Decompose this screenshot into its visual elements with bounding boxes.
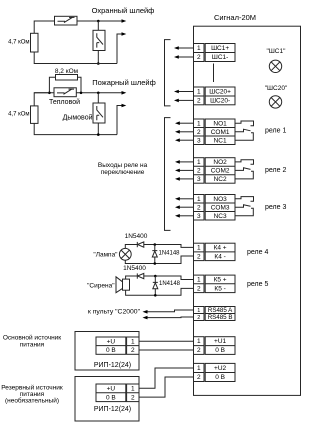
relay contact symbol реле 1 [235, 121, 254, 140]
svg-text:2: 2 [131, 394, 135, 401]
svg-text:RS485 B: RS485 B [208, 314, 233, 321]
svg-text:1: 1 [197, 338, 201, 345]
label: реле 5 [247, 281, 268, 288]
svg-text:реле 1: реле 1 [265, 127, 286, 134]
svg-text:2: 2 [131, 347, 135, 354]
svg-text:"Лампа": "Лампа" [93, 251, 118, 258]
wire РИП1 0В to 0В [139, 349, 194, 351]
arrow to ШС1- [122, 32, 127, 36]
wire+arrow к NO1 row2 [175, 130, 194, 134]
terminal block +U2 [194, 363, 236, 381]
label: Пожарный шлейф [92, 78, 156, 87]
node: junction охранный bottom [97, 62, 100, 65]
svg-text:1N5400: 1N5400 [125, 233, 148, 240]
svg-text:1N4148: 1N4148 [159, 251, 181, 257]
svg-text:Охранный шлейф: Охранный шлейф [92, 6, 155, 15]
label: реле 2 [265, 167, 286, 174]
РИП2 terminal block [96, 384, 139, 402]
svg-text:3: 3 [197, 137, 201, 144]
detector box Дымовой [93, 103, 105, 123]
label: Охранный шлейф [92, 6, 155, 15]
svg-text:NO2: NO2 [213, 159, 227, 166]
svg-text:ШС20-: ШС20- [210, 98, 230, 105]
wire: охранный return hook [117, 34, 122, 64]
diode 1N5400 (сирена) [137, 273, 144, 278]
node: lamp top junction [154, 243, 157, 246]
node: junction right (branch) [80, 92, 83, 95]
svg-text:NO3: NO3 [213, 196, 227, 203]
node: siren top junction [154, 275, 157, 278]
node: siren bottom junction [154, 294, 157, 297]
svg-text:COM3: COM3 [211, 204, 230, 211]
svg-text:2: 2 [197, 315, 200, 321]
label: РИП-12(24) #2 [94, 406, 131, 413]
wire: лампа top to К4+ [125, 245, 193, 249]
svg-text:2: 2 [197, 168, 201, 175]
terminal block +U1 [194, 337, 236, 355]
wire+arrow к ШС20+ [174, 90, 194, 94]
svg-text:к пульту "С2000": к пульту "С2000" [88, 309, 141, 316]
svg-text:2: 2 [197, 204, 201, 211]
svg-text:3: 3 [197, 176, 201, 183]
bracket ШС group [165, 40, 171, 106]
svg-text:4,7 кОм: 4,7 кОм [8, 40, 29, 46]
svg-text:К4 +: К4 + [214, 245, 227, 252]
svg-text:1: 1 [197, 159, 201, 166]
wire+arrow к ШС1+ [174, 46, 194, 50]
svg-text:"ШС20": "ШС20" [265, 85, 288, 92]
wire+arrow к ШС20- [174, 99, 194, 103]
wire: охранный шлейф bottom + left riser [34, 52, 117, 64]
node: junction left (branch) [48, 92, 51, 95]
svg-text:1: 1 [197, 89, 201, 96]
wire+arrow к NO2 row2 [175, 169, 194, 173]
label: Тепловой [49, 98, 80, 106]
label: реле 1 [265, 127, 286, 134]
wire: пожарный main [34, 92, 122, 94]
wire: лампа bottom to К4- [125, 256, 193, 264]
resistor 8,2 кОм [56, 75, 78, 81]
svg-text:0 В: 0 В [106, 394, 116, 401]
svg-text:NC2: NC2 [214, 176, 227, 183]
wire+arrow к NO2 row1 [175, 160, 194, 164]
wire+arrow к NO3 row1 [175, 197, 194, 201]
wire: пожарный left corner [34, 93, 117, 135]
label: 1N4148 (лампа) [159, 251, 181, 257]
svg-text:2: 2 [197, 54, 201, 61]
svg-text:1: 1 [197, 120, 201, 127]
value label 4,7 кОм [8, 40, 29, 46]
wire РИП2 +U to +U2 [139, 368, 194, 388]
svg-text:+U1: +U1 [214, 338, 226, 345]
wire: сирена bottom to К5- [126, 288, 194, 295]
svg-text:реле 3: реле 3 [265, 204, 286, 211]
svg-text:РИП-12(24): РИП-12(24) [94, 362, 131, 369]
svg-text:реле 2: реле 2 [265, 167, 286, 174]
label: РИП-12(24) #1 [94, 362, 131, 369]
wire: охранный шлейф top [34, 21, 122, 33]
label: Основной источник питания [3, 333, 61, 348]
svg-text:К4 -: К4 - [214, 253, 225, 260]
wire: detector risers [97, 21, 99, 64]
svg-text:1: 1 [197, 45, 201, 52]
value label 8,2 кОм [55, 68, 79, 75]
svg-text:К5 -: К5 - [214, 285, 225, 292]
terminal block NO1 [194, 119, 236, 145]
svg-text:0 В: 0 В [215, 374, 225, 381]
label: Резервный источник питания (необязательный) [1, 383, 63, 404]
svg-text:1N4148: 1N4148 [159, 281, 181, 287]
svg-text:4,7 кОм: 4,7 кОм [8, 112, 29, 118]
label: 1N5400 (лампа) [125, 233, 148, 240]
resistor 4,7 кОм (пожарный) [31, 106, 39, 124]
svg-text:1: 1 [131, 339, 135, 346]
svg-text:Пожарный шлейф: Пожарный шлейф [92, 78, 156, 87]
wire+arrow к ШС1- [174, 55, 194, 59]
svg-text:1: 1 [197, 196, 201, 203]
svg-text:2: 2 [197, 98, 201, 105]
label: реле 3 [265, 204, 286, 211]
wire+arrow к NO1 row1 [175, 121, 194, 125]
node: junction дымовой top [97, 92, 100, 95]
label: Сигнал-20М [214, 13, 256, 22]
svg-text:RS485 A: RS485 A [208, 307, 233, 314]
svg-text:+U2: +U2 [214, 365, 226, 372]
wire+arrow к NO3 row2 [175, 205, 194, 209]
svg-text:Дымовой: Дымовой [63, 113, 93, 121]
svg-text:1: 1 [197, 245, 201, 252]
indicator "ШС1" [267, 48, 287, 73]
svg-text:"ШС1": "ШС1" [267, 48, 287, 55]
diode 1N4148 (лампа) [152, 245, 157, 264]
label: реле 4 [247, 249, 268, 256]
terminal block NO3 [194, 195, 236, 221]
wire РИП2 0В to 0В [139, 377, 194, 397]
svg-text:NC3: NC3 [214, 213, 227, 220]
svg-text:NC1: NC1 [214, 137, 227, 144]
relay contact symbol реле 3 [235, 197, 254, 216]
svg-text:(необязательный): (необязательный) [5, 397, 59, 405]
svg-text:1: 1 [197, 277, 201, 284]
svg-text:0 В: 0 В [215, 347, 225, 354]
svg-text:2: 2 [197, 129, 201, 136]
power supply box РИП-12(24) #1 [75, 332, 139, 371]
svg-text:0 В: 0 В [106, 347, 116, 354]
diode 1N5400 (лампа) [137, 242, 144, 247]
bracket relay group [165, 118, 171, 231]
label: Дымовой [63, 113, 93, 121]
wire+arrow к NO3 row3 [175, 214, 194, 218]
svg-text:1N5400: 1N5400 [123, 265, 146, 272]
contact box Тепловой [54, 88, 76, 97]
svg-text:2: 2 [197, 285, 201, 292]
lamp symbol [119, 248, 131, 260]
terminal block К5 [194, 275, 236, 293]
label: "Сирена" [87, 282, 115, 289]
arrow to ШС20+ [122, 91, 127, 95]
svg-text:COM1: COM1 [211, 129, 230, 136]
wire+arrow к NO1 row3 [175, 138, 194, 142]
relay contact symbol реле 2 [235, 160, 254, 179]
label: Выходы реле на переключение [98, 162, 148, 176]
svg-text:питания: питания [20, 341, 45, 348]
detector box (охранный извещатель) [93, 30, 105, 50]
svg-text:1: 1 [197, 308, 200, 314]
svg-text:Тепловой: Тепловой [49, 98, 80, 106]
svg-text:+U: +U [107, 339, 116, 346]
terminal block RS485 [194, 307, 236, 322]
label: 1N5400 (сирена) [123, 265, 146, 272]
svg-text:Сигнал-20М: Сигнал-20М [214, 13, 256, 22]
node: junction дымовой bottom [97, 133, 100, 136]
device box Сигнал-20М [194, 26, 301, 395]
wire: resistor branch [49, 77, 81, 93]
svg-text:+U: +U [107, 386, 116, 393]
svg-text:К5 +: К5 + [214, 277, 227, 284]
svg-text:2: 2 [197, 374, 201, 381]
svg-text:реле 5: реле 5 [247, 281, 268, 288]
label: 1N4148 (сирена) [159, 281, 181, 287]
resistor 4,7 кОм (охранный шлейф) [31, 33, 39, 52]
svg-text:"Сирена": "Сирена" [87, 282, 115, 289]
svg-text:1: 1 [131, 386, 135, 393]
wire: сирена top to К5+ [126, 276, 194, 280]
wire continuation ШС1..ШС20 [213, 64, 215, 83]
value label 4,7 кОм (пожарный) [8, 112, 29, 118]
arrow to ШС1+ [122, 19, 127, 23]
wire+arrow к NO2 row3 [175, 177, 194, 181]
terminal block ШС20 [194, 87, 236, 105]
wire РИП1 +U to +U1 [139, 340, 194, 342]
svg-text:переключение: переключение [101, 169, 145, 176]
РИП1 terminal block [96, 337, 139, 354]
arrow to ШС20- [122, 104, 127, 108]
siren speaker symbol [116, 277, 130, 293]
svg-text:ШС1+: ШС1+ [211, 45, 229, 52]
svg-text:реле 4: реле 4 [247, 249, 268, 256]
indicator "ШС20" [265, 85, 288, 108]
svg-text:ШС20+: ШС20+ [209, 89, 231, 96]
contact box (охранный, НЗ контакт) [55, 16, 78, 25]
svg-text:Основной источник: Основной источник [3, 333, 61, 341]
power supply box РИП-12(24) #2 [75, 377, 139, 422]
svg-text:COM2: COM2 [211, 168, 230, 175]
node: junction охранный top [97, 20, 100, 23]
svg-text:ШС1-: ШС1- [212, 54, 228, 61]
wire+arrow RS485 A [143, 310, 194, 314]
svg-text:3: 3 [197, 213, 201, 220]
svg-text:РИП-12(24): РИП-12(24) [94, 406, 131, 413]
wire: пожарный return hook [117, 106, 122, 135]
terminal block NO2 [194, 158, 236, 184]
label: "Лампа" [93, 251, 118, 258]
label: к пульту "С2000" [88, 309, 141, 316]
svg-text:2: 2 [197, 253, 201, 260]
terminal block ШС1 [194, 44, 236, 62]
node: lamp bottom junction [154, 262, 157, 265]
svg-text:NO1: NO1 [213, 120, 227, 127]
wire+arrow RS485 B [143, 316, 194, 320]
diode 1N4148 (сирена) [153, 276, 158, 295]
terminal block К4 [194, 243, 236, 260]
svg-text:1: 1 [197, 365, 201, 372]
wire: дымовой risers [97, 93, 99, 135]
svg-text:2: 2 [197, 347, 201, 354]
